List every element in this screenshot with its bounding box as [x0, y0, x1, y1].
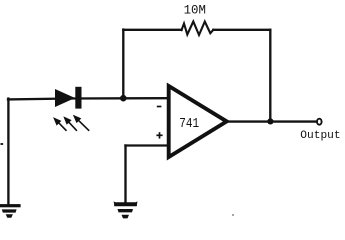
- svg-text:10M: 10M: [184, 3, 206, 17]
- svg-text:Output: Output: [300, 130, 340, 142]
- svg-text:741: 741: [179, 116, 199, 132]
